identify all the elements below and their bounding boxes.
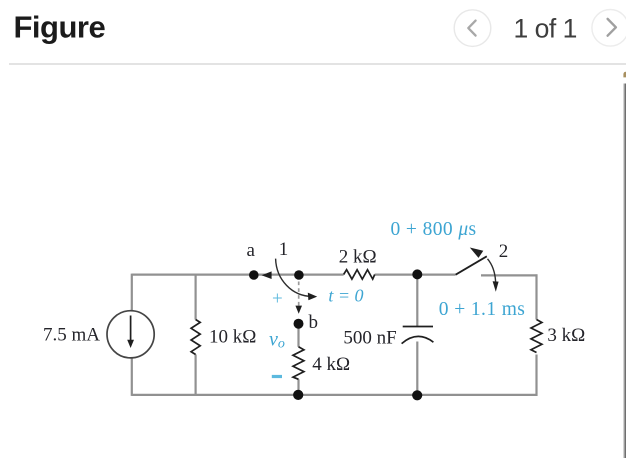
wire: top rail between 2k resistor and switch-2 pivot xyxy=(375,274,456,276)
svg-text:vo: vo xyxy=(269,329,285,352)
switch 1 motion arc arrowhead xyxy=(308,293,317,301)
svg-text:7.5 mA: 7.5 mA xyxy=(43,325,100,346)
wire: node b to 4k resistor lead xyxy=(297,324,299,347)
wire: bottom rail xyxy=(132,394,538,396)
resistor 4 kOhm xyxy=(293,347,304,380)
wire: left rail above current source xyxy=(131,274,133,311)
wire: right rail above 3k resistor xyxy=(535,274,537,319)
switch 1 pivot node xyxy=(294,270,304,280)
svg-text:t = 0: t = 0 xyxy=(328,285,363,305)
wire: capacitor branch upper lead xyxy=(416,274,418,326)
wire: left rail below current source xyxy=(131,358,133,396)
switch 2 blade xyxy=(456,256,487,274)
svg-text:1: 1 xyxy=(279,239,289,260)
resistor 10 kOhm xyxy=(191,320,200,355)
wire: right rail below 3k resistor xyxy=(535,355,537,396)
current source I 7.5 mA xyxy=(107,311,154,358)
svg-text:Figure: Figure xyxy=(14,10,106,45)
wire: 4k resistor to bottom rail lead xyxy=(297,379,299,395)
nav next button xyxy=(592,10,626,47)
divider rule xyxy=(9,63,626,65)
wire: 10k branch lower lead xyxy=(195,355,197,395)
switch 1 throw arrowhead at b xyxy=(295,306,302,314)
nav prev button xyxy=(454,10,491,47)
polarity minus sign xyxy=(272,375,282,378)
junction node at top of capacitor branch xyxy=(412,269,422,279)
svg-text:1 of 1: 1 of 1 xyxy=(514,13,577,43)
switch 1 blade arrowhead at a xyxy=(262,271,272,279)
svg-text:b: b xyxy=(309,312,319,333)
svg-text:500 nF: 500 nF xyxy=(343,328,396,349)
right edge tan marker xyxy=(623,72,626,78)
wire: top rail left segment xyxy=(132,274,344,276)
junction node at bottom of capacitor branch xyxy=(412,390,422,400)
switch 1 motion arc (t=0) xyxy=(276,259,313,297)
svg-text:4 kΩ: 4 kΩ xyxy=(312,354,350,375)
right edge panel scrollbar line xyxy=(624,84,626,458)
resistor 3 kOhm xyxy=(531,320,542,353)
junction node at bottom of 4k branch xyxy=(293,390,303,400)
svg-text:+: + xyxy=(272,289,283,310)
wire: capacitor branch lower lead xyxy=(416,342,418,396)
switch 1 dashed throw line to b xyxy=(298,282,300,306)
wire: switch-2 contact stub to top-right corner xyxy=(481,274,538,276)
svg-text:0 + 800 μs: 0 + 800 μs xyxy=(391,219,477,240)
wire: 10k branch upper lead xyxy=(195,275,197,320)
resistor 2 kOhm xyxy=(344,270,375,279)
switch 2 motion arc xyxy=(488,259,496,282)
svg-text:3 kΩ: 3 kΩ xyxy=(547,325,585,346)
switch 2 opening arrowhead (0 + 800 us) xyxy=(470,248,484,258)
svg-text:0 + 1.1 ms: 0 + 1.1 ms xyxy=(439,299,526,320)
capacitor C 500 nF xyxy=(402,327,434,344)
svg-text:10 kΩ: 10 kΩ xyxy=(209,326,256,347)
svg-text:a: a xyxy=(247,240,256,261)
switch 1: node a xyxy=(249,270,259,280)
svg-text:2: 2 xyxy=(499,241,509,262)
svg-text:2 kΩ: 2 kΩ xyxy=(339,247,377,268)
node b xyxy=(294,319,304,329)
switch 2 motion arc arrowhead xyxy=(493,281,499,292)
